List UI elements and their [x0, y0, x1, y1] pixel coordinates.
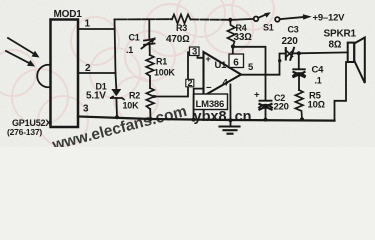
svg-text:6: 6	[233, 57, 239, 68]
svg-text:2: 2	[85, 63, 91, 74]
svg-text:MOD1: MOD1	[54, 9, 83, 20]
wire C4 branch	[298, 53, 300, 69]
ground bus wire	[78, 117, 335, 121]
ground	[220, 127, 240, 134]
svg-text:.1: .1	[315, 75, 322, 85]
wire rail to S1 junction	[191, 18, 231, 20]
wire pin2	[78, 72, 116, 74]
svg-text:3: 3	[192, 47, 197, 58]
pin6 label box	[229, 54, 244, 68]
LM386 label box	[194, 94, 228, 110]
capacitor C1 branch wire	[148, 19, 150, 39]
switch S1	[233, 12, 280, 21]
top supply rail wire	[115, 18, 173, 20]
watermark rings	[0, 0, 274, 146]
svg-text:10Ω: 10Ω	[308, 100, 325, 111]
svg-text:−: −	[206, 83, 212, 94]
svg-text:2: 2	[188, 78, 193, 88]
junction D1-bus	[115, 115, 119, 119]
svg-text:C1: C1	[129, 33, 140, 43]
svg-text:+: +	[254, 90, 260, 101]
wire pin6 bypass to C2	[233, 47, 266, 100]
svg-text:ybx8. cn: ybx8. cn	[194, 109, 252, 125]
resistor R4	[228, 20, 236, 47]
capacitor C2	[259, 101, 272, 120]
junction C3 output	[297, 51, 301, 55]
svg-text:8Ω: 8Ω	[329, 40, 342, 51]
resistor R1	[146, 55, 154, 76]
resistor R3	[172, 15, 191, 24]
wire vertical supply line	[115, 19, 117, 88]
IR arrow 1	[8, 38, 40, 58]
wire pin6	[232, 47, 234, 67]
svg-text:33Ω: 33Ω	[234, 32, 253, 43]
svg-text:C3: C3	[288, 24, 299, 34]
wire R1 to R2	[149, 76, 151, 88]
svg-text:100K: 100K	[154, 67, 175, 77]
IR module MOD1	[37, 20, 78, 128]
wire pin1	[78, 28, 115, 30]
svg-text:220: 220	[282, 36, 299, 47]
svg-text:5.1V: 5.1V	[86, 91, 106, 102]
wire pin4	[229, 85, 231, 127]
supply arrowhead	[303, 14, 312, 19]
wire opamp output pin5	[241, 54, 286, 75]
junction R2-bus	[149, 117, 153, 121]
capacitor C3	[286, 48, 299, 60]
zener diode D1	[111, 89, 124, 117]
svg-text:10K: 10K	[123, 100, 140, 110]
junction rail/R4	[228, 18, 232, 22]
resistor R5	[295, 90, 303, 119]
pin3 label box	[190, 47, 200, 56]
svg-text:C4: C4	[312, 65, 325, 76]
svg-text:SPKR1: SPKR1	[324, 28, 357, 39]
svg-text:(276-137): (276-137)	[7, 127, 42, 137]
svg-text:470Ω: 470Ω	[166, 34, 190, 45]
svg-text:LM386: LM386	[196, 99, 225, 110]
junction pin2-bus	[192, 118, 196, 122]
svg-text:+: +	[206, 54, 211, 64]
pot wiper arrow wire to pin3	[153, 52, 203, 98]
capacitor C4	[293, 69, 305, 90]
op-amp U1	[204, 52, 242, 96]
svg-text:U1: U1	[215, 60, 228, 71]
svg-text:R2: R2	[129, 91, 140, 101]
svg-text:1: 1	[85, 19, 91, 30]
svg-text:.1: .1	[126, 45, 133, 55]
junction pin4-bus	[228, 118, 232, 122]
wire R2 to bus	[149, 109, 151, 119]
svg-text:3: 3	[83, 104, 89, 115]
svg-text:+9–12V: +9–12V	[313, 12, 346, 23]
wire to speaker	[299, 51, 348, 54]
svg-text:220: 220	[274, 102, 289, 113]
resistor R2 pot	[146, 88, 154, 109]
wire pin2 inverting input	[194, 89, 204, 120]
IR arrow 2	[6, 51, 35, 67]
svg-text:R3: R3	[176, 23, 187, 33]
junction R5-bus	[300, 117, 304, 121]
pin label 2 box	[186, 79, 194, 87]
junction C2-bus	[264, 118, 268, 122]
C3 polarity dot	[278, 59, 281, 62]
capacitor C1	[142, 37, 157, 55]
svg-text:R1: R1	[156, 56, 167, 66]
svg-text:S1: S1	[263, 22, 274, 32]
speaker SPKR1	[335, 38, 365, 121]
wire S1 to supply arrow	[280, 17, 304, 19]
junction R4/pin6	[231, 44, 235, 48]
